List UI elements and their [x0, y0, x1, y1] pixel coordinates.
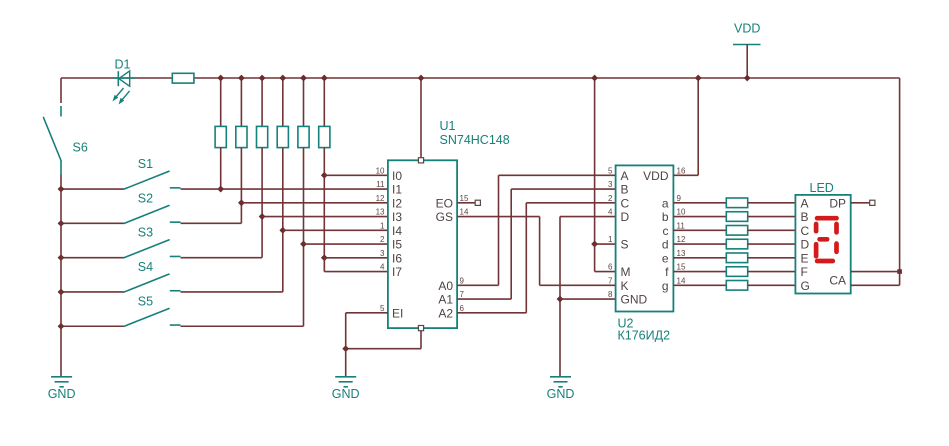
wire: S2 row to corner	[181, 222, 242, 224]
resistor pull-up 5 top wire	[303, 78, 305, 126]
svg-text:A: A	[801, 196, 809, 210]
svg-text:B: B	[801, 210, 809, 224]
wire: GS pin to riser	[457, 216, 539, 218]
junction on left rail at S3	[58, 254, 65, 261]
wire: GS riser down to K row	[539, 217, 541, 286]
svg-text:3: 3	[380, 249, 385, 258]
switch S6 top contact	[60, 106, 62, 117]
wire: left rail to switch S1	[61, 188, 124, 190]
junction node R3/I3 row	[259, 213, 266, 220]
svg-text:3: 3	[608, 180, 613, 189]
wire: D riser down to GND symbol	[559, 217, 561, 377]
svg-text:S4: S4	[138, 260, 153, 274]
resistor pull-up 2 body	[236, 126, 247, 147]
wire: A1 riser up to B row	[510, 189, 512, 299]
wire: A0 pin stub	[457, 284, 498, 286]
junction on rail at resistor 3	[259, 75, 266, 82]
svg-text:D1: D1	[115, 58, 131, 72]
svg-text:b: b	[662, 210, 669, 224]
svg-text:2: 2	[380, 235, 385, 244]
wire: I7 row to U1	[324, 271, 388, 273]
wire: I6 row from R6 column to U1	[324, 257, 388, 259]
svg-text:C: C	[621, 196, 630, 210]
wire: K row to U2	[540, 284, 616, 286]
switch S5 right contact	[170, 324, 181, 326]
svg-text:D: D	[801, 238, 810, 252]
wire: S5 row to corner	[181, 325, 304, 327]
svg-text:U1: U1	[440, 119, 456, 133]
wire: rail drop to U2 S pin	[594, 78, 596, 244]
resistor bank 1 body	[726, 198, 747, 208]
wire: left rail to switch S4	[61, 291, 124, 293]
resistor pull-up 4 top wire	[282, 78, 284, 126]
wire: U1 GND pin down	[420, 331, 422, 349]
wire: bank resistor 5 to LED segment E	[748, 257, 796, 259]
svg-text:GS: GS	[436, 210, 453, 224]
wire: U2 f to bank resistor 6	[673, 271, 726, 273]
switch S6 blade	[44, 118, 62, 161]
wire: A2 riser up to C row	[525, 203, 527, 313]
switch S3 right contact	[170, 255, 181, 257]
svg-text:DP: DP	[829, 196, 846, 210]
junction node R6/I6 row	[321, 254, 328, 261]
svg-text:I7: I7	[392, 265, 402, 279]
resistor pull-up 4 bottom wire	[282, 148, 284, 292]
svg-text:13: 13	[677, 249, 686, 258]
resistor (series, unlabeled) body	[172, 73, 194, 83]
svg-text:GND: GND	[621, 293, 648, 307]
wire: S3 row to corner	[181, 257, 263, 259]
svg-text:9: 9	[460, 276, 465, 285]
resistor pull-up 1 bottom wire	[220, 148, 222, 189]
wire: EI pin to ground node	[346, 312, 388, 314]
wire: U1 GND pin to ground node	[346, 348, 421, 350]
switch S4 right contact	[170, 290, 181, 292]
svg-text:S1: S1	[138, 157, 153, 171]
diode D1 emission arrow 1	[113, 88, 124, 102]
svg-text:SN74HC148: SN74HC148	[440, 133, 510, 147]
svg-text:6: 6	[460, 304, 465, 313]
svg-text:12: 12	[376, 194, 385, 203]
wire: left rail to switch S5	[61, 325, 124, 327]
svg-text:11: 11	[376, 180, 385, 189]
wire: left rail to switch S2	[61, 222, 124, 224]
wire: U2 d to bank resistor 4	[673, 243, 726, 245]
svg-text:a: a	[662, 196, 669, 210]
resistor bank 6 body	[726, 267, 747, 277]
junction node R5/I5 row	[300, 241, 307, 248]
resistor pull-up 3 body	[257, 126, 268, 147]
svg-text:G: G	[801, 279, 810, 293]
svg-text:15: 15	[677, 263, 686, 272]
wire: M row to U2 pin M	[595, 271, 616, 273]
svg-text:M: M	[621, 265, 631, 279]
resistor pull-up 6 bottom wire	[323, 148, 325, 272]
power symbol VDD bar	[733, 44, 761, 46]
svg-text:B: B	[621, 183, 629, 197]
op-amp U2 body (K176ID2 decoder)	[616, 165, 674, 311]
resistor pull-up 3 bottom wire	[261, 148, 263, 258]
svg-text:I0: I0	[392, 169, 402, 183]
svg-text:15: 15	[460, 194, 469, 203]
resistor bank 2 body	[726, 212, 747, 222]
wire: U2 a to bank resistor 1	[673, 202, 726, 204]
svg-text:16: 16	[677, 166, 686, 175]
resistor pull-up 2 top wire	[240, 78, 242, 126]
wire: U2 GND pin stub	[560, 298, 616, 300]
svg-text:S: S	[621, 238, 629, 252]
svg-text:12: 12	[677, 235, 686, 244]
wire: I3 row from R3 junction to U1	[262, 216, 388, 218]
U1 EO pin stub	[457, 202, 475, 204]
junction on left rail at S1	[58, 186, 65, 193]
svg-text:1: 1	[608, 235, 613, 244]
wire: U2 g to bank resistor 7	[673, 284, 726, 286]
svg-text:VDD: VDD	[643, 169, 669, 183]
junction on rail at resistor 1	[217, 75, 224, 82]
svg-text:d: d	[662, 238, 669, 252]
junction on rail at resistor 6	[321, 75, 328, 82]
svg-text:S2: S2	[138, 191, 153, 205]
svg-text:I3: I3	[392, 210, 402, 224]
LED digit segment d (bottom)	[817, 259, 833, 264]
svg-text:CA: CA	[829, 274, 846, 288]
junction node CA	[897, 269, 902, 274]
LED digit segment c (bottom-right)	[834, 244, 839, 252]
ground symbol (U1)	[335, 376, 356, 378]
wire: bank resistor 7 to LED segment G	[748, 284, 796, 286]
diode D1 anode pin line through triangle	[113, 77, 136, 79]
wire: U2 e to bank resistor 5	[673, 257, 726, 259]
svg-text:6: 6	[608, 263, 613, 272]
resistor pull-up 6 top wire	[323, 78, 325, 126]
wire: bank resistor 2 to LED segment B	[748, 216, 796, 218]
wire: B row to U2 pin B	[511, 188, 615, 190]
junction node R6/I0 row	[321, 172, 328, 179]
LED digit segment a (top)	[817, 216, 836, 221]
wire: I4 row from R4 junction to U1	[283, 229, 388, 231]
diode D1 cathode bar	[117, 71, 119, 86]
LED digit segment g (middle)	[820, 237, 828, 242]
svg-text:VDD: VDD	[734, 22, 760, 36]
svg-text:10: 10	[376, 166, 385, 175]
svg-text:A: A	[621, 169, 629, 183]
svg-text:LED: LED	[810, 181, 834, 195]
wire: EI down to ground node	[345, 313, 347, 349]
junction node R2/I2 row	[238, 199, 245, 206]
wire: ground node down to GND symbol	[345, 349, 347, 377]
svg-text:GND: GND	[332, 387, 360, 401]
resistor bank 3 body	[726, 226, 747, 236]
junction on rail above U1	[418, 75, 425, 82]
junction on left rail at S2	[58, 220, 65, 227]
wire: left rail from S6 down to ground	[60, 175, 62, 377]
wire: left rail top segment down to switch S6	[60, 78, 62, 103]
U1 hidden power pin square (top)	[418, 158, 423, 163]
ground symbol (U2)	[550, 376, 571, 378]
junction node R4/I4 row	[279, 227, 286, 234]
wire: VDD symbol stem	[746, 45, 748, 79]
svg-text:EI: EI	[392, 306, 403, 320]
resistor bank 4 body	[726, 239, 747, 249]
svg-text:14: 14	[677, 276, 686, 285]
ground symbol (left rail)	[51, 376, 72, 378]
wire: U2 b to bank resistor 2	[673, 216, 726, 218]
resistor pull-up 4 body	[277, 126, 288, 147]
wire: S4 row to corner	[181, 291, 283, 293]
svg-text:S3: S3	[138, 226, 153, 240]
resistor pull-up 1 body	[215, 126, 226, 147]
resistor pull-up 3 top wire	[261, 78, 263, 126]
wire: U2 D pin to riser	[560, 216, 616, 218]
svg-text:5: 5	[380, 304, 385, 313]
svg-text:F: F	[801, 265, 808, 279]
svg-text:7: 7	[460, 290, 465, 299]
svg-text:11: 11	[677, 221, 686, 230]
junction on left rail at S4	[58, 289, 65, 296]
LED digit segment b (top-right)	[834, 224, 839, 232]
svg-text:C: C	[801, 224, 810, 238]
wire: I7 riser on R6 column	[323, 258, 325, 272]
svg-text:13: 13	[376, 208, 385, 217]
svg-text:2: 2	[608, 194, 613, 203]
switch S5 blade	[124, 308, 169, 326]
svg-text:EO: EO	[436, 196, 453, 210]
switch S4 blade	[124, 274, 169, 292]
wire: right rail from top corner down to CA node	[899, 78, 901, 272]
LED digit segment f (top-left)	[814, 224, 819, 231]
resistor bank 7 body	[726, 281, 747, 291]
svg-text:I4: I4	[392, 224, 402, 238]
svg-text:I5: I5	[392, 238, 402, 252]
wire: bank resistor 3 to LED segment C	[748, 229, 796, 231]
svg-text:g: g	[662, 279, 669, 293]
svg-text:A0: A0	[438, 279, 453, 293]
svg-text:GND: GND	[48, 387, 76, 401]
svg-text:1: 1	[380, 221, 385, 230]
junction node at S pin	[591, 241, 598, 248]
wire: S1 to U1 I1	[181, 188, 388, 190]
svg-text:4: 4	[608, 208, 613, 217]
svg-text:8: 8	[608, 290, 613, 299]
U1 hidden ground pin square (bottom)	[418, 326, 423, 331]
svg-text:4: 4	[380, 263, 385, 272]
svg-text:К176ИД2: К176ИД2	[618, 329, 671, 343]
op-amp U1 body (SN74HC148 priority encoder)	[388, 160, 457, 328]
svg-text:GND: GND	[547, 387, 575, 401]
switch S1 blade	[124, 171, 169, 189]
junction on rail at U2 VDD drop	[695, 75, 702, 82]
diode D1 triangle	[119, 71, 130, 86]
wire: U1 VCC pin from top rail	[420, 78, 422, 158]
junction on rail at resistor 5	[300, 75, 307, 82]
DP unconnected terminal square	[870, 200, 875, 205]
junction on rail at resistor 4	[279, 75, 286, 82]
junction on rail at VDD stem	[744, 75, 751, 82]
wire: S node to U2 pin S	[595, 243, 616, 245]
svg-text:c: c	[663, 224, 669, 238]
wire: S node down to M row	[594, 244, 596, 271]
wire: I0 row from R6 column to U1	[324, 174, 388, 176]
wire: C row to U2 pin C	[526, 202, 615, 204]
LED display body	[795, 195, 850, 294]
wire: top horizontal power rail from left corner to right corner	[61, 77, 900, 79]
wire: CA upper stub to node	[851, 271, 900, 273]
svg-text:5: 5	[608, 166, 613, 175]
EO unconnected terminal square	[475, 200, 480, 205]
switch S6 bottom contact	[60, 161, 62, 175]
switch S3 blade	[124, 240, 169, 258]
wire: I2 row from R2 junction to U1	[241, 202, 388, 204]
wire: bank resistor 6 to LED segment F	[748, 271, 796, 273]
svg-text:A2: A2	[438, 306, 453, 320]
svg-text:10: 10	[677, 208, 686, 217]
switch S2 right contact	[170, 221, 181, 223]
svg-text:S6: S6	[73, 141, 88, 155]
diode D1 emission arrow 2	[119, 91, 130, 105]
wire: U2 VDD pin 16 stub	[673, 174, 698, 176]
resistor pull-up 6 body	[319, 126, 330, 147]
junction node R1/I1 row	[217, 186, 224, 193]
resistor pull-up 5 bottom wire	[303, 148, 305, 327]
svg-text:I2: I2	[392, 196, 402, 210]
resistor bank 5 body	[726, 253, 747, 263]
wire: A0 riser up to A row	[498, 175, 500, 285]
wire: CA lower stub	[851, 284, 900, 286]
svg-text:9: 9	[677, 194, 682, 203]
svg-text:7: 7	[608, 276, 613, 285]
wire: A row to U2 pin A	[499, 174, 616, 176]
switch S2 blade	[124, 206, 169, 224]
wire: CA node down	[899, 272, 901, 286]
wire: I5 row from R5 junction to U1	[304, 243, 388, 245]
svg-text:K: K	[621, 279, 629, 293]
resistor pull-up 2 bottom wire	[240, 148, 242, 224]
LED digit segment e (bottom-left)	[814, 244, 819, 256]
svg-text:A1: A1	[438, 293, 453, 307]
wire: left rail to switch S3	[61, 257, 124, 259]
wire: bank resistor 4 to LED segment D	[748, 243, 796, 245]
wire: bank resistor 1 to LED segment A	[748, 202, 796, 204]
junction node at U1 ground	[342, 345, 349, 352]
wire: A1 pin stub	[457, 298, 511, 300]
switch S1 right contact	[170, 187, 181, 189]
junction on rail at resistor 2	[238, 75, 245, 82]
svg-text:14: 14	[460, 208, 469, 217]
svg-text:I1: I1	[392, 183, 402, 197]
wire: U2 c to bank resistor 3	[673, 229, 726, 231]
svg-text:D: D	[621, 210, 630, 224]
LED DP pin stub	[851, 202, 870, 204]
junction node at U2 GND pin row	[557, 296, 564, 303]
svg-text:E: E	[801, 251, 809, 265]
svg-text:I6: I6	[392, 251, 402, 265]
wire: VDD pin riser to rail	[697, 78, 699, 175]
resistor pull-up 1 top wire	[220, 78, 222, 126]
junction on rail at S drop	[591, 75, 598, 82]
resistor pull-up 5 body	[298, 126, 309, 147]
svg-text:S5: S5	[138, 294, 153, 308]
svg-text:e: e	[662, 251, 669, 265]
wire: A2 pin stub	[457, 312, 526, 314]
junction on left rail at S5	[58, 323, 65, 330]
